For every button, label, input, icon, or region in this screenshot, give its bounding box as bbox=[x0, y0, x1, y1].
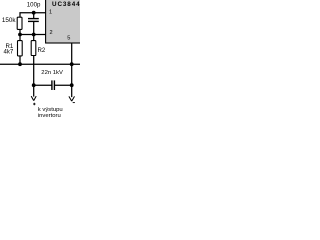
svg-text:invertoru: invertoru bbox=[38, 113, 61, 119]
svg-text:150k: 150k bbox=[2, 17, 17, 24]
svg-text:R2: R2 bbox=[38, 47, 46, 54]
svg-text:4k7: 4k7 bbox=[3, 48, 13, 55]
svg-text:22n 1kV: 22n 1kV bbox=[41, 70, 63, 76]
svg-text:5: 5 bbox=[67, 35, 70, 41]
svg-text:100p: 100p bbox=[27, 2, 41, 9]
svg-text:UC3844: UC3844 bbox=[52, 1, 80, 8]
svg-text:1: 1 bbox=[49, 10, 52, 16]
svg-text:2: 2 bbox=[49, 30, 52, 36]
